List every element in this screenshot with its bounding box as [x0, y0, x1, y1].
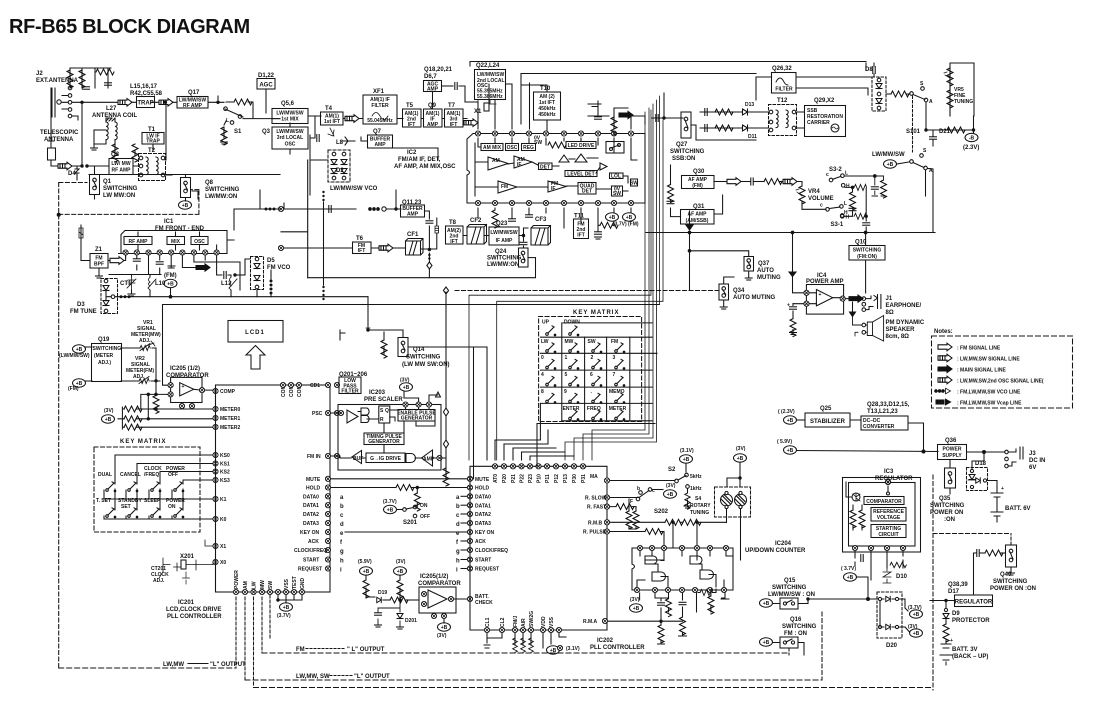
svg-text:RF AMP: RF AMP [112, 168, 132, 174]
svg-text:IF AMP: IF AMP [496, 238, 513, 244]
svg-text:CF1: CF1 [407, 232, 419, 238]
svg-text:P13: P13 [563, 474, 569, 483]
svg-text:ENTER: ENTER [563, 406, 580, 412]
svg-text:K1: K1 [220, 497, 227, 503]
svg-text:(LW MW SW:ON): (LW MW SW:ON) [402, 362, 450, 368]
svg-text:IFT: IFT [450, 122, 458, 128]
svg-text:SW: SW [588, 339, 596, 345]
svg-text:SWITCHING: SWITCHING [205, 187, 240, 193]
svg-text:+B: +B [913, 612, 920, 618]
svg-text:STABILIZER: STABILIZER [810, 419, 846, 425]
svg-text:AM: AM [492, 158, 500, 164]
svg-text:KEY MATRIX: KEY MATRIX [573, 310, 619, 316]
svg-text:FM: FM [296, 647, 305, 653]
svg-text:L27: L27 [106, 106, 117, 112]
svg-text:REGULATOR: REGULATOR [955, 600, 993, 606]
svg-text:+: + [950, 638, 953, 644]
svg-text:H: H [846, 184, 850, 190]
svg-text:IC3: IC3 [884, 469, 894, 475]
svg-text:(METER: (METER [94, 353, 114, 359]
svg-text:DATA0: DATA0 [475, 495, 491, 501]
svg-text:4: 4 [541, 372, 544, 378]
svg-text:Q1: Q1 [103, 179, 112, 185]
svg-text:COMPARATOR: COMPARATOR [166, 373, 209, 379]
svg-text:: LW,MW,SW,2nd OSC SIGNAL LINE: : LW,MW,SW,2nd OSC SIGNAL LINE( [957, 379, 1044, 385]
svg-text:LW/ MW: LW/ MW [111, 161, 130, 167]
svg-text:LCD1: LCD1 [245, 330, 265, 336]
svg-text:KS2: KS2 [220, 470, 230, 476]
svg-text:(FM): (FM) [164, 273, 177, 279]
svg-text:AMP: AMP [407, 212, 419, 218]
svg-text:LW,MW, SW: LW,MW, SW [296, 674, 330, 680]
svg-text:ADJ.: ADJ. [153, 578, 165, 584]
svg-text:VR4: VR4 [808, 189, 820, 195]
svg-text:(3.7V): (3.7V) [277, 613, 291, 619]
svg-text:OFF: OFF [168, 472, 178, 478]
svg-text:POWER: POWER [234, 570, 240, 589]
svg-text:h: h [456, 558, 460, 564]
svg-text:VOLTAGE: VOLTAGE [877, 515, 901, 521]
svg-text:DUAL: DUAL [98, 472, 112, 478]
svg-text:IFT: IFT [450, 239, 458, 245]
svg-text:L8: L8 [336, 140, 344, 146]
svg-text:(3.1V): (3.1V) [566, 646, 580, 652]
svg-text:ADJ.: ADJ. [133, 374, 145, 380]
svg-text:Q23: Q23 [496, 221, 508, 227]
svg-text:CARRIER: CARRIER [807, 120, 830, 126]
svg-text:D2: D2 [336, 168, 344, 174]
svg-text:PLL CONTROLLER: PLL CONTROLLER [167, 614, 222, 620]
svg-text:7: 7 [613, 372, 616, 378]
svg-text:2: 2 [591, 355, 594, 361]
svg-text:D201: D201 [405, 618, 417, 624]
svg-text:6V: 6V [1029, 465, 1036, 471]
svg-text:FM TUNE: FM TUNE [70, 309, 97, 315]
svg-text:OSC: OSC [285, 142, 296, 148]
svg-text:Q36: Q36 [945, 438, 957, 444]
svg-text:DATA2: DATA2 [303, 512, 319, 518]
svg-text:CLOCK/FREQ: CLOCK/FREQ [475, 548, 508, 554]
svg-text:Q8: Q8 [205, 180, 214, 186]
svg-text:IC2: IC2 [407, 150, 417, 156]
svg-text:P21: P21 [511, 474, 517, 483]
svg-text:Q15: Q15 [784, 578, 796, 584]
svg-text:LW: LW [252, 581, 258, 589]
svg-text:(3V): (3V) [396, 559, 406, 565]
svg-text:T6: T6 [356, 236, 364, 242]
svg-text:R.M.A: R.M.A [583, 619, 598, 625]
svg-text:S4: S4 [695, 496, 701, 502]
svg-text:5: 5 [565, 372, 568, 378]
svg-text:SPEAKER: SPEAKER [886, 327, 916, 333]
svg-text:S3-1: S3-1 [831, 222, 844, 228]
svg-text:AIR: AIR [521, 618, 527, 627]
svg-text:METER: METER [609, 406, 627, 412]
svg-text:PM DYNAMIC: PM DYNAMIC [886, 320, 925, 326]
svg-text:R.M.B: R.M.B [588, 520, 603, 526]
svg-text:ANTENNA: ANTENNA [44, 137, 74, 143]
svg-text:G→IG DRIVE: G→IG DRIVE [370, 456, 402, 462]
svg-text:J3: J3 [1029, 451, 1036, 457]
svg-text:EARPHONE/: EARPHONE/ [886, 303, 922, 309]
svg-text:FM: FM [501, 184, 508, 190]
svg-text:Z1: Z1 [95, 247, 103, 253]
svg-text:AUTO MUTING: AUTO MUTING [733, 295, 776, 301]
svg-text:CONVERTER: CONVERTER [863, 424, 895, 430]
svg-text:HOLD: HOLD [306, 486, 321, 492]
svg-text:FM FRONT - END: FM FRONT - END [155, 226, 205, 232]
svg-text:T10: T10 [540, 86, 551, 92]
svg-text:X201: X201 [180, 554, 195, 560]
svg-text:POWER ON: POWER ON [930, 510, 963, 516]
svg-text:FM/J: FM/J [513, 615, 519, 627]
svg-text:LW/MW/SW: LW/MW/SW [872, 152, 905, 158]
svg-text:LW/MW/SW: LW/MW/SW [490, 230, 517, 236]
svg-text:+: + [819, 292, 822, 298]
svg-text:SWITCHING: SWITCHING [93, 346, 122, 352]
svg-text:D4: D4 [68, 171, 76, 177]
svg-text:METER1: METER1 [220, 416, 241, 422]
svg-text:Q17: Q17 [188, 90, 200, 96]
svg-text:Notes:: Notes: [934, 329, 953, 335]
svg-text:K0: K0 [220, 517, 227, 523]
svg-text:LEVEL DET: LEVEL DET [567, 172, 594, 178]
svg-text:METER0: METER0 [220, 407, 241, 413]
svg-text:MA: MA [590, 474, 598, 480]
svg-text:X0: X0 [220, 560, 226, 566]
svg-text:ADJ.): ADJ.) [98, 360, 111, 366]
svg-text:g: g [456, 549, 460, 555]
svg-text:KS3: KS3 [220, 478, 230, 484]
svg-text:T13,L21,23: T13,L21,23 [867, 409, 898, 415]
svg-text:ACK: ACK [475, 539, 486, 545]
svg-text:BUF: BUF [353, 456, 363, 462]
svg-text:D9: D9 [952, 611, 960, 617]
svg-text:S101: S101 [906, 129, 921, 135]
svg-text:S2: S2 [668, 467, 676, 473]
svg-text:UP/DOWN COUNTER: UP/DOWN COUNTER [745, 548, 806, 554]
svg-text:REGULATOR: REGULATOR [875, 476, 913, 482]
svg-text:FM : ON: FM : ON [784, 631, 807, 637]
svg-text:DATA2: DATA2 [475, 512, 491, 518]
svg-text:CANCEL: CANCEL [120, 472, 141, 478]
svg-text:LOL: LOL [611, 174, 621, 180]
svg-text:IC202: IC202 [597, 638, 614, 644]
svg-text:+: + [787, 303, 790, 309]
svg-text:T8: T8 [449, 220, 457, 226]
svg-text:J2: J2 [36, 71, 43, 77]
svg-text:KS1: KS1 [220, 462, 230, 468]
svg-text:: FM SIGNAL LINE: : FM SIGNAL LINE [957, 346, 1001, 352]
svg-text:b: b [340, 504, 344, 510]
svg-text:R. SLOW: R. SLOW [585, 496, 607, 502]
svg-text:COMPARATOR: COMPARATOR [418, 581, 461, 587]
svg-text:T5: T5 [406, 103, 414, 109]
svg-text:AM: AM [243, 581, 249, 589]
svg-text:Q16: Q16 [790, 617, 802, 623]
svg-text:IC204: IC204 [775, 541, 792, 547]
svg-text:AMP: AMP [374, 142, 386, 148]
svg-text:T4: T4 [325, 106, 333, 112]
svg-text:FILTER: FILTER [775, 87, 793, 93]
svg-text:T7: T7 [448, 103, 456, 109]
svg-text:ACK: ACK [308, 539, 319, 545]
svg-text:S3-2: S3-2 [829, 167, 842, 173]
svg-text:b: b [637, 486, 640, 492]
svg-text:8cm, 8Ω: 8cm, 8Ω [886, 334, 910, 340]
svg-text:(3V): (3V) [437, 633, 447, 639]
svg-text:AM MIX: AM MIX [483, 145, 502, 151]
svg-text:DATA3: DATA3 [475, 521, 491, 527]
svg-text:METER2: METER2 [220, 425, 241, 431]
svg-text:S1: S1 [234, 129, 242, 135]
svg-text:OSC: OSC [507, 145, 518, 151]
svg-text:/FREQ: /FREQ [144, 472, 159, 478]
svg-text:AUTO: AUTO [757, 268, 774, 274]
svg-text:SUPPLY: SUPPLY [942, 453, 962, 459]
svg-text:5kHz: 5kHz [690, 474, 702, 480]
svg-text:CLOCK/FREQ: CLOCK/FREQ [294, 548, 327, 554]
svg-text:(3V): (3V) [104, 408, 114, 414]
svg-text:Q2: Q2 [111, 152, 120, 158]
svg-text:D17: D17 [948, 589, 960, 595]
svg-text:(BACK – UP): (BACK – UP) [952, 654, 988, 660]
svg-text:L15,16,17: L15,16,17 [130, 84, 158, 90]
svg-text:LW MW:ON: LW MW:ON [103, 193, 135, 199]
svg-text:1kHz: 1kHz [690, 486, 702, 492]
svg-text:Q37: Q37 [758, 261, 770, 267]
svg-text:AMP: AMP [423, 457, 435, 463]
svg-text:(3.7V): (3.7V) [383, 499, 397, 505]
svg-text:Q38,39: Q38,39 [948, 582, 968, 588]
svg-text:KS0: KS0 [220, 453, 230, 459]
svg-text:SW: SW [630, 181, 638, 187]
svg-text:A: A [929, 99, 933, 105]
svg-text:KEY ON: KEY ON [300, 530, 319, 536]
svg-text:3: 3 [613, 355, 616, 361]
svg-text:P20: P20 [502, 474, 508, 483]
svg-text:LW/MW/SW : ON: LW/MW/SW : ON [768, 592, 815, 598]
svg-text:CF3: CF3 [535, 217, 547, 223]
svg-text:Q19: Q19 [98, 337, 110, 343]
svg-text:DC IN: DC IN [1029, 458, 1045, 464]
svg-text:: FM,LW,MW,SW VCO LINE: : FM,LW,MW,SW VCO LINE [957, 390, 1021, 396]
svg-text:1st MIX: 1st MIX [281, 117, 299, 123]
svg-text:FM/AM IF, DET,: FM/AM IF, DET, [398, 157, 441, 163]
svg-text:PSC: PSC [312, 411, 323, 417]
svg-text:IFT: IFT [408, 122, 416, 128]
svg-text:TELESCOPIC: TELESCOPIC [40, 130, 79, 136]
svg-text:KEY ON: KEY ON [475, 530, 494, 536]
svg-text:IC203: IC203 [369, 390, 386, 396]
svg-text:R. FAST: R. FAST [587, 505, 606, 511]
svg-text:AF AMP, AM MIX,OSC: AF AMP, AM MIX,OSC [394, 164, 456, 170]
svg-text:IF: IF [517, 162, 521, 168]
svg-text:Q5,6: Q5,6 [281, 101, 295, 107]
svg-text:P11: P11 [545, 474, 551, 483]
svg-text:IC205(1/2): IC205(1/2) [420, 574, 448, 580]
svg-text:X1: X1 [220, 544, 226, 550]
svg-text:START: START [475, 558, 491, 564]
svg-text:L: L [226, 118, 229, 124]
svg-text:( 5.9V): ( 5.9V) [777, 439, 792, 445]
svg-text:Q30: Q30 [693, 169, 705, 175]
svg-text:Q24: Q24 [495, 249, 507, 255]
svg-text:J1: J1 [886, 296, 893, 302]
svg-text:POWER ON :ON: POWER ON :ON [990, 586, 1036, 592]
svg-text:DATA0: DATA0 [303, 494, 319, 500]
svg-text::ON: :ON [944, 517, 955, 523]
svg-text:D3: D3 [77, 302, 85, 308]
svg-text:Q: Q [385, 408, 389, 414]
svg-text:IC205 (1/2): IC205 (1/2) [170, 366, 200, 372]
svg-text:IC201: IC201 [178, 600, 195, 606]
svg-text:POWER: POWER [943, 447, 962, 453]
svg-text:Q34: Q34 [733, 288, 745, 294]
svg-text:DET: DET [582, 189, 592, 195]
svg-text:(AM/SSB): (AM/SSB) [686, 218, 709, 224]
svg-text:SWITCHING: SWITCHING [782, 624, 817, 630]
svg-text:CF2: CF2 [470, 218, 482, 224]
svg-text:( 3.7V): ( 3.7V) [841, 566, 856, 572]
svg-text:GND: GND [300, 578, 306, 590]
svg-text:SWITCHING: SWITCHING [103, 186, 138, 192]
svg-text:(5.9V): (5.9V) [358, 559, 372, 565]
svg-text:(3V): (3V) [630, 597, 640, 603]
svg-text:Q22,L24: Q22,L24 [476, 63, 500, 69]
svg-text:TRAP: TRAP [137, 101, 153, 107]
svg-text:OFF: OFF [420, 514, 430, 520]
svg-text:: LW,MW,SW SIGNAL LINE: : LW,MW,SW SIGNAL LINE [957, 357, 1020, 363]
svg-text:P12: P12 [554, 474, 560, 483]
svg-text:COMP: COMP [220, 389, 236, 395]
svg-text:IF: IF [551, 186, 555, 192]
svg-text:D19: D19 [378, 590, 387, 596]
svg-text:P10: P10 [537, 474, 543, 483]
svg-text:D18: D18 [975, 461, 987, 467]
svg-text:RF-B65 BLOCK DIAGRAM: RF-B65 BLOCK DIAGRAM [9, 16, 250, 38]
svg-text:VSS: VSS [284, 578, 290, 589]
svg-text:c: c [820, 203, 823, 209]
svg-text:AF AMP: AF AMP [688, 212, 708, 218]
svg-text:SWITCHING: SWITCHING [993, 579, 1028, 585]
svg-text:DATA3: DATA3 [303, 521, 319, 527]
svg-text:REQUEST: REQUEST [475, 567, 499, 573]
svg-text:PROTECTOR: PROTECTOR [952, 618, 990, 624]
svg-text:SWITCHING: SWITCHING [853, 248, 882, 254]
svg-text:SW: SW [268, 581, 274, 589]
svg-text:LW,MW: LW,MW [163, 662, 184, 668]
svg-text:"L" OUTPUT: "L" OUTPUT [354, 674, 390, 680]
svg-text:FM: FM [611, 339, 618, 345]
svg-text:g: g [340, 549, 344, 555]
svg-text:0: 0 [541, 355, 544, 361]
svg-text:h: h [340, 559, 344, 565]
svg-text:"L" OUTPUT: "L" OUTPUT [210, 662, 246, 668]
svg-text:REQUEST: REQUEST [298, 567, 322, 573]
svg-text:SWITCHING: SWITCHING [487, 256, 522, 262]
svg-text:L10: L10 [155, 281, 166, 287]
svg-text:Q3: Q3 [262, 129, 271, 135]
svg-text:CL2: CL2 [500, 617, 506, 627]
svg-text:UP: UP [542, 320, 550, 326]
svg-text:LW/MW:ON: LW/MW:ON [487, 262, 519, 268]
svg-text:HOLD: HOLD [475, 486, 490, 492]
svg-text:(FM): (FM) [692, 183, 703, 189]
svg-text:D10: D10 [896, 574, 908, 580]
svg-text:(3V): (3V) [736, 446, 746, 452]
svg-text:d: d [340, 522, 344, 528]
svg-text:Q27: Q27 [676, 142, 688, 148]
svg-text:SWITCHING: SWITCHING [772, 585, 807, 591]
svg-text:(3V): (3V) [666, 483, 676, 489]
svg-text:VSS: VSS [549, 616, 555, 627]
svg-text:Q25: Q25 [820, 406, 832, 412]
svg-text:FM IN: FM IN [307, 454, 321, 460]
svg-text:TEST: TEST [292, 576, 298, 589]
svg-text:P22: P22 [520, 474, 526, 483]
svg-text:55.045MHz: 55.045MHz [367, 118, 393, 124]
svg-text:6: 6 [590, 372, 593, 378]
svg-text:8: 8 [541, 389, 544, 395]
svg-text:d: d [456, 522, 460, 528]
svg-text:TUNING: TUNING [954, 99, 973, 105]
svg-text:(FM): (FM) [68, 386, 79, 392]
svg-text:Q18,20,21: Q18,20,21 [424, 67, 453, 73]
svg-text:LW/MW/SW VCO: LW/MW/SW VCO [330, 186, 378, 192]
svg-text:: FM,LW,MW,SW Vcap LINE: : FM,LW,MW,SW Vcap LINE [957, 401, 1022, 407]
svg-text:MUTING: MUTING [757, 275, 781, 281]
svg-text:REG: REG [523, 145, 534, 151]
svg-text:+: + [182, 384, 185, 390]
svg-text:R: R [380, 417, 384, 423]
svg-text:AMP: AMP [427, 122, 439, 128]
svg-text:R. PULSE: R. PULSE [583, 530, 607, 536]
svg-text:XF1: XF1 [373, 89, 385, 95]
svg-text:FILTER: FILTER [371, 103, 389, 109]
svg-text:Q35: Q35 [939, 496, 951, 502]
svg-text:D5: D5 [267, 258, 275, 264]
svg-text:Q26,32: Q26,32 [772, 66, 792, 72]
svg-text:Q9: Q9 [428, 103, 437, 109]
svg-text:9: 9 [564, 389, 567, 395]
svg-text:3rd LOCAL: 3rd LOCAL [277, 135, 303, 141]
svg-text:" L" OUTPUT: " L" OUTPUT [347, 647, 385, 653]
svg-text:SW/2G: SW/2G [529, 611, 535, 627]
svg-text:(3.1V): (3.1V) [680, 448, 694, 454]
svg-text:DET: DET [540, 165, 550, 171]
svg-text:(LW/MW/SW): (LW/MW/SW) [59, 353, 90, 359]
svg-text:AT0: AT0 [493, 474, 499, 483]
svg-text:MUTE: MUTE [306, 477, 321, 483]
svg-text:Q28,33,D12,15,: Q28,33,D12,15, [867, 402, 910, 408]
svg-text:SWITCHING: SWITCHING [670, 149, 705, 155]
svg-text:b: b [456, 504, 460, 510]
svg-text:S202: S202 [654, 509, 669, 515]
svg-text:CHECK: CHECK [475, 600, 493, 606]
svg-text:S201: S201 [403, 520, 418, 526]
svg-text:SW: SW [613, 191, 621, 197]
svg-text:KEY MATRIX: KEY MATRIX [120, 439, 166, 445]
svg-text:IC1: IC1 [164, 219, 174, 225]
svg-text:D11: D11 [748, 134, 757, 140]
svg-text:Q7: Q7 [373, 129, 382, 135]
svg-text:LW/MW:ON: LW/MW:ON [205, 194, 237, 200]
svg-text:VDD: VDD [541, 616, 547, 627]
svg-text:SWITCHING: SWITCHING [930, 503, 965, 509]
svg-text:CIRCUIT: CIRCUIT [878, 532, 898, 538]
svg-text:ON: ON [420, 503, 428, 509]
